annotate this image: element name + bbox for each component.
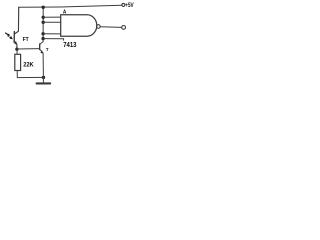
wire gate input 4: [43, 39, 64, 41]
wire gate input 3: [43, 33, 61, 35]
node bus dot 1 (+5V rail): [42, 6, 45, 9]
label 7413: [63, 41, 77, 49]
node bus dot 2: [42, 16, 45, 19]
svg-text:T: T: [46, 47, 49, 52]
NAND gate output bubble: [97, 25, 101, 29]
wire gate input 1: [43, 16, 60, 18]
wire J1 to resistor top: [16, 49, 18, 54]
phototransistor FT base bar: [13, 32, 15, 43]
NAND gate 7413 body: [61, 15, 97, 37]
svg-text:A: A: [63, 9, 67, 15]
label +5V: [125, 2, 134, 9]
wire gate input 2: [43, 21, 60, 23]
transistor T emitter wire: [40, 49, 44, 77]
wire resistor bottom: [17, 71, 43, 78]
transistor T base bar: [39, 44, 41, 50]
resistor R1 body: [15, 54, 21, 70]
label A: [63, 9, 67, 15]
wire left vertical to phototransistor collector: [15, 7, 19, 34]
gap between light arrows: [9, 36, 10, 37]
node bus dot 4: [41, 32, 44, 35]
label 22K: [23, 62, 34, 68]
svg-text:22K: 22K: [23, 62, 34, 68]
wire base of T: [17, 48, 40, 50]
transistor T collector wire: [40, 7, 43, 44]
wire top +5V rail: [19, 5, 122, 7]
node bus dot 5: [41, 37, 44, 40]
light arrow 2: [8, 36, 10, 37]
ground: [37, 82, 51, 84]
node J1 junction dot: [15, 48, 18, 51]
terminal +5V circle: [122, 3, 125, 6]
FT emitter arrowhead: [14, 41, 17, 45]
label T: [46, 47, 49, 52]
svg-text:+5V: +5V: [125, 2, 134, 9]
node bus dot 3: [42, 21, 45, 24]
FT emitter wire: [14, 41, 17, 50]
wire ground stub: [42, 77, 44, 82]
node J2 junction dot: [42, 76, 45, 79]
wire gate output: [100, 26, 121, 29]
transistor T emitter arrowhead: [40, 50, 43, 53]
label FT: [23, 37, 30, 43]
svg-text:FT: FT: [23, 37, 30, 43]
light arrow 1: [6, 33, 8, 35]
terminal output circle: [122, 26, 126, 30]
svg-text:7413: 7413: [63, 41, 77, 49]
